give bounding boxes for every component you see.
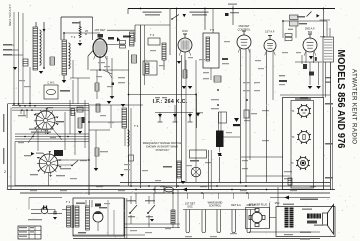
svg-text:OSC: OSC (187, 205, 193, 208)
svg-text:FREQUENCY RANGE SWITCH: FREQUENCY RANGE SWITCH (143, 141, 182, 145)
svg-text:25Ω: 25Ω (275, 202, 280, 205)
svg-text:T 3: T 3 (134, 124, 139, 128)
svg-text:ATWATER KENT RADIO: ATWATER KENT RADIO (350, 69, 356, 145)
svg-text:504: 504 (308, 30, 313, 34)
svg-text:DET & A: DET & A (231, 204, 241, 207)
svg-text:2ND DET: 2ND DET (238, 24, 250, 28)
svg-text:2: 2 (4, 170, 6, 174)
svg-text:T 4: T 4 (150, 33, 155, 37)
svg-text:J-472 (PG 1358): J-472 (PG 1358) (8, 4, 12, 26)
svg-text:POSITION: POSITION (156, 148, 169, 152)
svg-text:T 1: T 1 (66, 200, 71, 204)
svg-text:T 2: T 2 (71, 35, 76, 39)
svg-text:CONTROL: CONTROL (209, 205, 222, 208)
svg-text:T 5: T 5 (210, 28, 215, 32)
svg-text:Ω: Ω (85, 32, 87, 36)
svg-text:SPEAKER PLUG: SPEAKER PLUG (249, 204, 268, 207)
svg-text:C.W.1: C.W.1 (47, 81, 55, 85)
svg-text:I.F.: 264 K.C.: I.F.: 264 K.C. (153, 99, 188, 105)
svg-text:MODELS 856 AND 976: MODELS 856 AND 976 (335, 50, 347, 149)
svg-text:1ST A.F.: 1ST A.F. (265, 30, 275, 34)
svg-text:2ND A.F.: 2ND A.F. (305, 27, 316, 31)
svg-text:SHOWN IN SHORT WAVE: SHOWN IN SHORT WAVE (146, 145, 178, 149)
